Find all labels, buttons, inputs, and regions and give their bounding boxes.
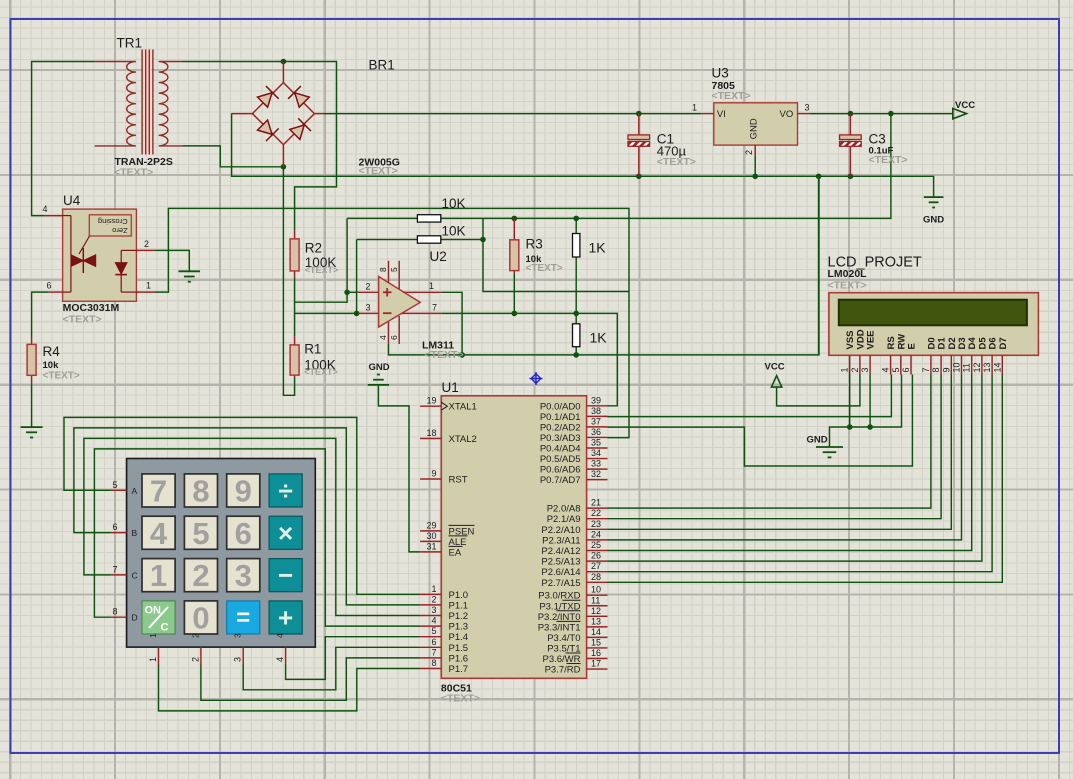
label U4 pin2 <box>144 239 149 249</box>
svg-text:R2: R2 <box>305 240 322 255</box>
bridge rectifier BR1 <box>232 62 324 167</box>
svg-text:31: 31 <box>426 541 436 551</box>
wire P2.5 to LCD D5 <box>608 375 982 562</box>
svg-text:9: 9 <box>235 473 252 508</box>
svg-text:<TEXT>: <TEXT> <box>657 156 696 168</box>
svg-text:<TEXT>: <TEXT> <box>359 165 398 177</box>
label U4 text <box>63 314 102 326</box>
label U4 pin4 <box>42 204 47 214</box>
svg-text:11: 11 <box>591 595 600 605</box>
wire keypad column 1 to U1 P1.7 <box>159 665 421 711</box>
svg-text:U3: U3 <box>712 66 729 81</box>
wire VCC arrow to LCD VDD <box>777 375 860 406</box>
svg-text:4: 4 <box>275 633 285 638</box>
wire analog ground row <box>389 176 820 355</box>
svg-text:<TEXT>: <TEXT> <box>305 265 339 275</box>
label U4 pin1 <box>146 281 151 291</box>
svg-text:P0.6/AD6: P0.6/AD6 <box>540 465 581 476</box>
svg-text:E: E <box>907 343 918 349</box>
wire tap to U2 plus input <box>295 218 348 302</box>
svg-text:8: 8 <box>931 367 941 372</box>
svg-text:GND: GND <box>923 215 944 226</box>
svg-text:2: 2 <box>190 657 200 662</box>
svg-text:P2.4/A12: P2.4/A12 <box>541 546 580 557</box>
svg-text:P0.2/AD2: P0.2/AD2 <box>540 422 581 433</box>
label TR1 <box>117 36 143 51</box>
svg-text:Zero: Zero <box>112 226 127 235</box>
svg-text:25: 25 <box>591 540 601 550</box>
wire P2.7 to LCD D7 <box>608 375 1003 583</box>
label U2 <box>430 249 447 264</box>
svg-text:3: 3 <box>860 367 870 372</box>
wire LCD VEE drop <box>869 375 871 428</box>
svg-text:P2.5/A13: P2.5/A13 <box>541 557 580 568</box>
LCD display LM020L <box>829 293 1039 375</box>
svg-text:P1.7: P1.7 <box>449 664 469 675</box>
optocoupler U4 <box>45 209 155 301</box>
svg-text:<TEXT>: <TEXT> <box>712 90 751 102</box>
wire U4 pin6 to R4 <box>32 292 49 336</box>
svg-text:VEE: VEE <box>866 330 877 349</box>
svg-text:7: 7 <box>921 367 931 372</box>
label 10K lower <box>442 223 466 238</box>
node C1 top <box>636 111 642 117</box>
svg-text:18: 18 <box>426 428 436 438</box>
label U4 <box>63 193 81 208</box>
svg-text:5: 5 <box>112 480 117 490</box>
node bridge bottom junction <box>281 164 287 170</box>
ground left below R4 <box>21 427 43 437</box>
svg-text:6: 6 <box>235 516 252 551</box>
wire P2.1 to LCD D1 <box>608 375 942 519</box>
svg-text:34: 34 <box>591 448 601 458</box>
svg-text:3: 3 <box>235 558 252 593</box>
label TRAN-2P2S <box>115 156 173 168</box>
wire TR1 primary to U4 pin4 (left vertical) <box>32 62 95 216</box>
node 1K top on row <box>573 216 579 222</box>
svg-text:9: 9 <box>941 367 951 372</box>
resistor 10K lower <box>417 236 440 243</box>
svg-text:D7: D7 <box>998 337 1009 349</box>
label LM020L <box>828 268 868 280</box>
label BR1 <box>369 58 395 73</box>
label R1 value <box>304 358 336 373</box>
node U2 pin3 junction <box>354 311 360 317</box>
svg-text:26: 26 <box>591 551 601 561</box>
label MOC3031M <box>63 302 120 314</box>
wire R2-R1 column <box>294 277 296 336</box>
svg-text:12: 12 <box>591 606 601 616</box>
svg-text:P0.4/AD4: P0.4/AD4 <box>540 444 581 455</box>
svg-text:5: 5 <box>891 367 901 372</box>
wire secondary top to bridge and down <box>183 62 337 177</box>
svg-text:10: 10 <box>591 585 601 595</box>
svg-text:2: 2 <box>190 633 200 638</box>
svg-text:27: 27 <box>591 561 601 571</box>
node C3 bottom on rail <box>848 174 854 180</box>
wire P2.2 to LCD D2 <box>608 375 952 530</box>
node U2 pin2 junction <box>344 290 350 296</box>
svg-text:8: 8 <box>431 658 436 668</box>
node R3 top on row <box>512 216 518 222</box>
wire LCD VSS drop <box>849 375 851 428</box>
svg-text:6: 6 <box>389 335 399 340</box>
label U4 pin6 <box>46 281 51 291</box>
wire 10K lower row <box>357 239 483 241</box>
svg-text:P0.3/AD3: P0.3/AD3 <box>540 433 581 444</box>
svg-text:P3.3/INT1: P3.3/INT1 <box>538 622 581 633</box>
svg-text:2: 2 <box>431 594 436 604</box>
svg-text:P0.0/AD0: P0.0/AD0 <box>540 401 581 412</box>
svg-text:10K: 10K <box>442 223 466 238</box>
svg-text:23: 23 <box>591 519 601 529</box>
resistor R3 <box>510 218 519 273</box>
svg-text:3: 3 <box>431 605 436 615</box>
svg-text:6: 6 <box>46 281 51 291</box>
svg-text:R3: R3 <box>526 237 543 252</box>
wire P0.2 to LCD E <box>608 375 913 467</box>
svg-text:R1: R1 <box>304 341 321 356</box>
svg-text:4: 4 <box>150 516 168 551</box>
svg-text:P1.0: P1.0 <box>449 590 469 601</box>
svg-text:29: 29 <box>426 520 436 530</box>
svg-text:P2.7/A15: P2.7/A15 <box>541 578 580 589</box>
wire rail net to P0.0 <box>818 176 820 354</box>
svg-text:1: 1 <box>429 281 434 291</box>
svg-text:R4: R4 <box>43 344 61 359</box>
label R2 text <box>305 265 339 275</box>
svg-text:P1.6: P1.6 <box>449 653 469 664</box>
svg-text:GND: GND <box>807 435 828 446</box>
svg-text:P1.3: P1.3 <box>449 622 469 633</box>
svg-text:P2.1/A9: P2.1/A9 <box>547 514 581 525</box>
svg-text:30: 30 <box>426 531 436 541</box>
wire R2 top hanger <box>295 176 337 230</box>
svg-text:P0.5/AD5: P0.5/AD5 <box>540 454 581 465</box>
wire EA ground link <box>378 385 420 552</box>
svg-text:16: 16 <box>591 648 601 658</box>
svg-text:TR1: TR1 <box>117 36 143 51</box>
svg-text:2: 2 <box>192 558 209 593</box>
label R2 value <box>305 255 337 270</box>
resistor 1K upper <box>573 234 580 258</box>
resistor R4 <box>27 337 36 385</box>
svg-text:6: 6 <box>901 367 911 372</box>
svg-text:10k: 10k <box>43 360 60 371</box>
wire U2 pin1 down to gnd row <box>441 292 462 355</box>
node C1 bottom on rail <box>636 174 642 180</box>
label 10K upper <box>442 196 466 211</box>
svg-text:P1.2: P1.2 <box>449 611 469 622</box>
svg-text:GND: GND <box>749 118 760 139</box>
resistor 10K upper <box>417 215 440 222</box>
svg-text:P2.3/A11: P2.3/A11 <box>542 535 580 546</box>
svg-text:GND: GND <box>369 362 390 373</box>
svg-text:21: 21 <box>591 498 601 508</box>
svg-text:6: 6 <box>431 637 436 647</box>
svg-text:C: C <box>132 570 138 580</box>
wire LCD VSS VEE RW ground row <box>830 375 902 448</box>
node VCC feed down <box>888 111 894 117</box>
svg-text:P3.4/T0: P3.4/T0 <box>547 633 580 644</box>
svg-text:24: 24 <box>591 529 601 539</box>
svg-text:P0.1/AD1: P0.1/AD1 <box>540 412 581 423</box>
svg-text:<TEXT>: <TEXT> <box>114 167 153 179</box>
svg-text:÷: ÷ <box>279 475 293 505</box>
svg-text:VI: VI <box>717 109 726 120</box>
svg-text:<TEXT>: <TEXT> <box>869 154 908 166</box>
node C3 top <box>848 111 854 117</box>
svg-text:P2.2/A10: P2.2/A10 <box>541 525 580 536</box>
svg-text:P1.1: P1.1 <box>449 600 469 611</box>
svg-text:−: − <box>278 560 293 590</box>
svg-text:13: 13 <box>982 362 992 372</box>
svg-text:2: 2 <box>850 367 860 372</box>
svg-text:2: 2 <box>144 239 149 249</box>
svg-text:P0.7/AD7: P0.7/AD7 <box>540 475 581 486</box>
svg-text:8: 8 <box>378 267 388 272</box>
svg-text:1: 1 <box>840 367 850 372</box>
wire R4 bottom to ground <box>31 384 33 427</box>
svg-text:7: 7 <box>432 302 437 312</box>
svg-text:P2.6/A14: P2.6/A14 <box>541 567 580 578</box>
svg-text:5: 5 <box>192 516 209 551</box>
svg-text:8: 8 <box>112 607 117 617</box>
wire U2 output row to U1 pin39 <box>441 313 617 405</box>
svg-text:4: 4 <box>275 657 285 662</box>
svg-text:1: 1 <box>146 281 151 291</box>
svg-text:P1.4: P1.4 <box>449 632 469 643</box>
label LCD text <box>828 280 867 292</box>
wire U4 pin2 to ground <box>155 250 190 271</box>
label 1K upper <box>589 240 607 256</box>
svg-text:7: 7 <box>150 473 167 508</box>
resistor R2 <box>290 230 299 277</box>
label C1 <box>657 132 674 147</box>
svg-text:7: 7 <box>431 647 436 657</box>
node rail branch to P0.0 net <box>816 174 822 180</box>
wire U3 VO to VCC arrow <box>810 113 953 115</box>
svg-text:0: 0 <box>192 600 209 635</box>
svg-text:VO: VO <box>780 109 794 120</box>
label U2 text <box>425 349 464 361</box>
node 10K lower right junction <box>480 237 486 243</box>
wire bridge bottom node down to R1 bottom <box>283 167 294 395</box>
label 2W005G <box>359 156 400 168</box>
label 7805 <box>712 80 736 92</box>
svg-text:10: 10 <box>952 362 962 372</box>
svg-text:RST: RST <box>449 475 468 486</box>
wire keypad column 4 to U1 P1.4 <box>286 637 421 680</box>
svg-text:<TEXT>: <TEXT> <box>304 367 338 377</box>
wire U4 pin1 to U1 pin36 <box>155 208 629 437</box>
svg-text:36: 36 <box>591 427 601 437</box>
svg-text:3: 3 <box>805 103 810 113</box>
wire keypad column 3 to U1 P1.5 <box>243 647 420 690</box>
svg-text:10K: 10K <box>442 196 466 211</box>
svg-text:1: 1 <box>150 558 167 593</box>
svg-text:B: B <box>132 528 138 538</box>
svg-text:22: 22 <box>591 508 601 518</box>
svg-text:17: 17 <box>591 659 601 669</box>
svg-text:13: 13 <box>591 616 601 626</box>
label U3 text <box>712 90 751 102</box>
label R2 <box>305 240 322 255</box>
svg-text:+: + <box>278 602 293 632</box>
svg-text:MOC3031M: MOC3031M <box>63 302 120 314</box>
wire keypad row A to U1 P1.0 <box>64 417 420 594</box>
node VSS on ground row <box>847 424 853 430</box>
wire bridge to U3 VI <box>324 113 702 115</box>
svg-text:P2.0/A8: P2.0/A8 <box>547 504 581 515</box>
svg-text:<TEXT>: <TEXT> <box>43 371 80 382</box>
svg-text:BR1: BR1 <box>369 58 395 73</box>
svg-text:C: C <box>161 621 169 633</box>
svg-text:19: 19 <box>426 396 436 406</box>
svg-text:6: 6 <box>112 522 117 532</box>
label C3 value <box>869 146 894 157</box>
capacitor C3 <box>840 114 862 177</box>
wire U3 pin2 to rail <box>754 156 756 176</box>
svg-text:15: 15 <box>591 637 601 647</box>
wire 10K lower row feed from upper row <box>483 218 629 291</box>
label U1 text <box>441 693 480 705</box>
node VEE on ground row <box>867 424 873 430</box>
label C1 value <box>657 143 687 158</box>
node U2 pin1 on gnd row <box>459 352 465 358</box>
label R4 text <box>43 371 80 382</box>
ground rail top right <box>923 197 944 225</box>
svg-text:<TEXT>: <TEXT> <box>63 314 102 326</box>
ground analog inverted to EA <box>368 362 390 385</box>
label R3 text <box>526 263 563 274</box>
svg-text:3: 3 <box>233 657 243 662</box>
svg-text:VCC: VCC <box>765 362 785 373</box>
node R3 bottom on output row <box>512 311 518 317</box>
svg-text:4: 4 <box>881 367 891 372</box>
wire keypad row C to U1 P1.2 <box>84 438 420 615</box>
resistor 1K lower <box>573 324 580 347</box>
node 1K bottom on gnd row <box>573 352 579 358</box>
wire 10K upper row to VCC <box>347 114 891 219</box>
wire 1K top leads <box>575 218 577 323</box>
svg-text:VCC: VCC <box>955 100 975 111</box>
svg-text:2: 2 <box>744 150 754 155</box>
svg-text:P1.5: P1.5 <box>449 643 469 654</box>
label R3 value <box>526 254 543 265</box>
label TR1 text <box>114 167 153 179</box>
svg-text:EA: EA <box>449 547 462 558</box>
wire keypad row D to U1 P1.3 <box>94 449 420 626</box>
wire U2 pin2 stub green <box>347 291 358 293</box>
microcontroller U1 <box>420 395 607 678</box>
wire secondary bottom to bridge bottom node <box>183 146 284 167</box>
svg-text:U1: U1 <box>442 380 459 395</box>
svg-text:P3.7/RD: P3.7/RD <box>545 665 581 676</box>
power VCC LCD arrow <box>765 362 785 388</box>
svg-text:<TEXT>: <TEXT> <box>828 280 867 292</box>
label 1K lower <box>590 330 608 346</box>
wire P2.6 to LCD D6 <box>608 375 993 572</box>
label R1 <box>304 341 321 356</box>
wire keypad row B to U1 P1.1 <box>74 428 420 605</box>
svg-text:<TEXT>: <TEXT> <box>425 349 464 361</box>
label C3 text <box>869 154 908 166</box>
label U3 <box>712 66 729 81</box>
svg-text:35: 35 <box>591 438 601 448</box>
wire R3 bottom to output row <box>513 273 515 313</box>
keypad <box>111 459 315 665</box>
wire tap to U2 minus input <box>295 312 357 314</box>
svg-text:37: 37 <box>591 416 601 426</box>
svg-text:5: 5 <box>431 626 436 636</box>
capacitor C1 <box>628 114 650 177</box>
svg-text:11: 11 <box>962 363 972 372</box>
svg-text:3: 3 <box>365 302 370 312</box>
svg-text:4: 4 <box>378 335 388 340</box>
label LCD_PROJET <box>828 255 922 271</box>
wire ground rail <box>232 113 934 196</box>
power VCC right arrow <box>953 100 975 119</box>
op-amp U2 <box>358 261 441 344</box>
label C3 <box>869 132 886 147</box>
svg-text:LM020L: LM020L <box>828 268 868 280</box>
origin marker <box>530 372 543 385</box>
svg-text:Crossing: Crossing <box>98 217 128 226</box>
svg-text:38: 38 <box>591 406 601 416</box>
svg-text:7: 7 <box>112 564 117 574</box>
resistor R1 <box>290 336 299 377</box>
svg-text:1: 1 <box>148 657 158 662</box>
label BR1 text <box>359 165 398 177</box>
node bridge top junction <box>281 59 287 65</box>
svg-text:2: 2 <box>365 282 370 292</box>
regulator U3 body <box>692 103 810 157</box>
svg-text:32: 32 <box>591 469 601 479</box>
svg-text:<TEXT>: <TEXT> <box>526 263 563 274</box>
svg-text:ON: ON <box>145 604 162 616</box>
svg-text:4: 4 <box>431 616 436 626</box>
svg-text:U4: U4 <box>63 193 81 208</box>
label R3 <box>526 237 543 252</box>
svg-text:=: = <box>236 604 250 631</box>
svg-text:28: 28 <box>591 572 601 582</box>
svg-text:8: 8 <box>192 473 209 508</box>
label R4 value <box>43 360 60 371</box>
svg-text:XTAL1: XTAL1 <box>449 402 477 413</box>
svg-text:3: 3 <box>233 633 243 638</box>
ground U4 pin2 <box>179 271 201 281</box>
label R4 <box>43 344 61 359</box>
svg-text:<TEXT>: <TEXT> <box>441 693 480 705</box>
wire P0.1 to LCD RS <box>608 375 892 417</box>
svg-text:4: 4 <box>42 204 47 214</box>
node 1K divider mid on output row <box>573 311 579 317</box>
svg-text:C3: C3 <box>869 132 886 147</box>
svg-text:1: 1 <box>692 103 697 113</box>
svg-text:1K: 1K <box>589 240 607 256</box>
label U1 <box>442 380 459 395</box>
svg-text:12: 12 <box>972 362 982 372</box>
node U3 pin2 on rail <box>752 174 758 180</box>
wire keypad column 2 to U1 P1.6 <box>201 658 420 700</box>
svg-text:U2: U2 <box>430 249 447 264</box>
wire 10K lower riser <box>356 240 358 314</box>
svg-text:D: D <box>132 613 138 623</box>
label 80C51 <box>441 682 472 694</box>
svg-text:14: 14 <box>591 627 601 637</box>
svg-text:1: 1 <box>431 584 436 594</box>
